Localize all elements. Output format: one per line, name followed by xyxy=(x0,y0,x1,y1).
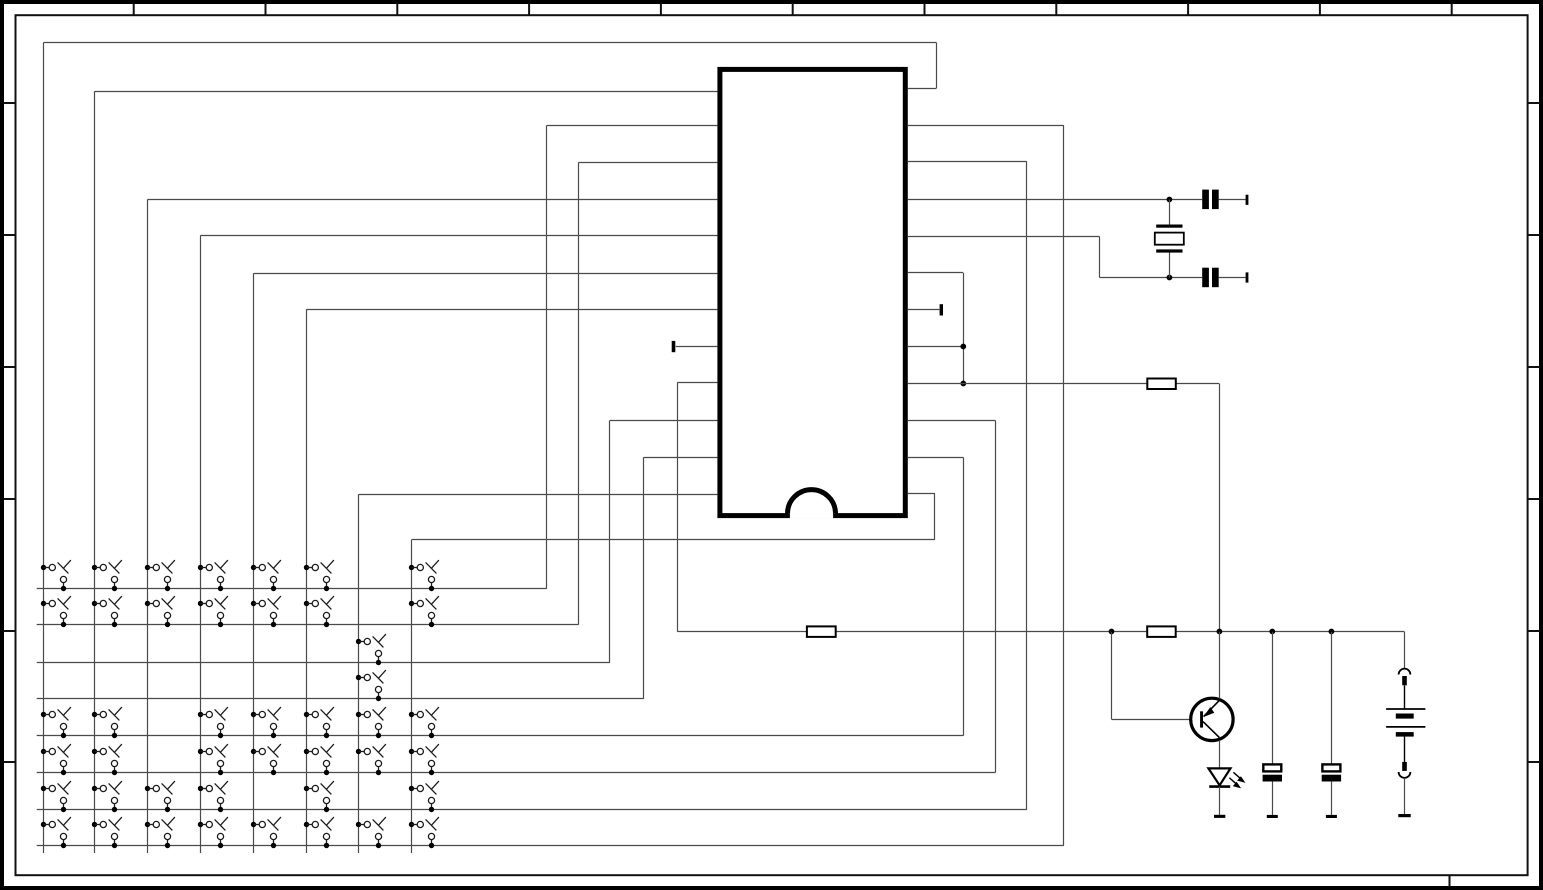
wire row net ROW3 horizontal xyxy=(37,662,610,664)
wire ROW8 riser xyxy=(1063,126,1065,846)
battery BT1 negative clip hook xyxy=(1399,772,1411,778)
pushbutton switch S1 (column 1, row 1) xyxy=(41,560,71,591)
pushbutton switch S18 (column 2, row 5) xyxy=(92,707,122,738)
frame tick left 5 xyxy=(3,630,15,632)
wire U1 right pin8 stub xyxy=(908,346,963,348)
junction VCC rail / C4 xyxy=(1329,629,1335,635)
ground terminal bar under BT1 xyxy=(1398,814,1410,817)
frame tick left 6 xyxy=(3,761,15,763)
pushbutton switch S28 (column 6, row 6) xyxy=(304,744,334,775)
junction VCC rail / Q1 base branch xyxy=(1109,629,1115,635)
wire ROW3 to U1 left pin10 xyxy=(610,420,718,422)
ground terminal bar under C4 xyxy=(1326,815,1337,818)
resistor R1 on VCC rail xyxy=(807,626,836,637)
capacitor C2 plates xyxy=(1202,268,1209,288)
wire U1 right pin7 stub xyxy=(908,309,940,311)
wire column4 net COL4 vertical xyxy=(200,235,202,853)
pushbutton switch S24 (column 1, row 6) xyxy=(41,744,71,775)
wire COL4 to U1 left pin5 xyxy=(200,235,717,237)
wire ROW4 riser xyxy=(643,458,645,699)
pushbutton switch S20 (column 5, row 5) xyxy=(251,707,281,738)
wire U1 right pin10 stub xyxy=(908,420,996,422)
wire pin6 to pin9 net tie xyxy=(963,273,965,384)
wire U1 right pin2 stub xyxy=(908,125,1064,127)
pushbutton switch S37 (column 1, row 8) xyxy=(41,817,71,848)
transistor Q1 collector xyxy=(1203,722,1219,738)
IC U1 microcontroller body xyxy=(720,69,905,515)
wire COL5 to U1 left pin6 xyxy=(254,273,718,275)
wire ROW7 riser xyxy=(1026,162,1028,810)
wire crystal Y1 top lead xyxy=(1169,200,1171,225)
frame tick right 6 xyxy=(1528,761,1540,763)
wire VCC to Q1 emitter xyxy=(1219,632,1221,699)
frame tick left 2 xyxy=(3,234,15,236)
pushbutton switch S43 (column 7, row 8) xyxy=(356,817,386,848)
junction VCC rail / C3 xyxy=(1269,629,1275,635)
frame tick top 2 xyxy=(265,3,267,15)
wire column3 net COL3 vertical xyxy=(147,200,149,854)
pushbutton switch S7 (column 8, row 1) xyxy=(409,560,439,591)
junction XTAL2/crystal xyxy=(1167,275,1173,281)
wire row net ROW6 horizontal xyxy=(37,772,996,774)
wire ROW2 to U1 left pin3 xyxy=(579,162,718,164)
pushbutton switch S30 (column 8, row 6) xyxy=(409,744,439,775)
wire U1 right pin12 stub xyxy=(908,493,935,495)
wire COL2 to U1 left pin1 xyxy=(95,91,718,93)
battery BT1 negative clip pin xyxy=(1402,762,1407,771)
capacitor C3 positive plate xyxy=(1263,764,1281,771)
frame tick top 5 xyxy=(660,3,662,15)
frame tick top 7 xyxy=(924,3,926,15)
wire COL8 routed under U1 xyxy=(411,539,935,541)
wire R2 to drop xyxy=(1176,383,1220,385)
terminal bar after C1 xyxy=(1246,195,1249,205)
frame tick right 2 xyxy=(1528,234,1540,236)
wire ROW2 riser xyxy=(578,162,580,624)
wire LED D1 cathode to ground terminal xyxy=(1219,787,1221,815)
wire capacitor C3 to ground terminal xyxy=(1272,782,1274,815)
wire column1 net COL1 vertical xyxy=(43,43,45,853)
LED D1 emission arrow 1 xyxy=(1233,772,1242,780)
wire COL8 drop from U1 right pin12 xyxy=(934,494,936,540)
pushbutton switch S21 (column 6, row 5) xyxy=(304,707,334,738)
no-connect bar terminal on U1 right pin7 xyxy=(940,304,943,315)
capacitor C4 negative plate xyxy=(1322,775,1341,782)
wire ROW3 riser xyxy=(609,420,611,662)
pushbutton switch S34 (column 4, row 7) xyxy=(198,781,228,812)
pushbutton switch S23 (column 8, row 5) xyxy=(409,707,439,738)
crystal Y1 top electrode plate xyxy=(1156,225,1182,228)
battery BT1 positive clip pin xyxy=(1402,676,1407,685)
pushbutton switch S40 (column 4, row 8) xyxy=(198,817,228,848)
wire column6 net COL6 vertical xyxy=(306,309,308,853)
pushbutton switch S29 (column 7, row 6) xyxy=(356,744,386,775)
frame tick top 3 xyxy=(396,3,398,15)
frame tick right 1 xyxy=(1528,102,1540,104)
wire U1 left pin8 stub xyxy=(676,346,718,348)
pushbutton switch S32 (column 2, row 7) xyxy=(92,781,122,812)
wire XTAL2 drop xyxy=(1099,237,1101,278)
frame tick top 10 xyxy=(1319,3,1321,15)
resistor R3 on VCC rail xyxy=(1147,626,1176,637)
frame tick top 6 xyxy=(792,3,794,15)
pushbutton switch S26 (column 4, row 6) xyxy=(198,744,228,775)
pushbutton switch S19 (column 4, row 5) xyxy=(198,707,228,738)
wire row net ROW4 horizontal xyxy=(37,698,644,700)
pushbutton switch S33 (column 3, row 7) xyxy=(145,781,175,812)
wire BT1 negative clip to ground terminal xyxy=(1404,778,1406,814)
wire ROW4 to U1 left pin11 xyxy=(643,457,717,459)
pushbutton switch S13 (column 6, row 2) xyxy=(304,596,334,627)
pushbutton switch S11 (column 4, row 2) xyxy=(198,596,228,627)
wire U1 right pin11 stub xyxy=(908,457,963,459)
transistor Q1 PNP circle xyxy=(1191,698,1233,740)
pushbutton switch S38 (column 2, row 8) xyxy=(92,817,122,848)
IC U1 notch gap xyxy=(790,513,833,518)
wire column5 net COL5 vertical xyxy=(253,273,255,853)
junction pin8 tie xyxy=(960,344,966,350)
pushbutton switch S42 (column 6, row 8) xyxy=(304,817,334,848)
wire row net ROW7 horizontal xyxy=(37,809,1027,811)
wire U1 right pin6 stub xyxy=(908,272,963,274)
frame tick left 1 xyxy=(3,102,15,104)
wire row net ROW5 horizontal xyxy=(37,735,964,737)
pushbutton switch S35 (column 6, row 7) xyxy=(304,781,334,812)
wire ROW1 to U1 left pin2 xyxy=(547,125,718,127)
battery BT1 cell1 long plate xyxy=(1386,708,1425,710)
no-connect bar terminal on U1 left pin8 xyxy=(672,341,676,352)
pushbutton switch S44 (column 8, row 8) xyxy=(409,817,439,848)
wire capacitor C4 to ground terminal xyxy=(1331,782,1333,815)
capacitor C1 plates xyxy=(1202,190,1209,210)
terminal bar after C2 xyxy=(1246,272,1249,282)
wire COL1 top horizontal xyxy=(43,42,936,44)
wire crystal Y1 bottom lead xyxy=(1169,252,1171,277)
wire XTAL2 from U1 right pin5 xyxy=(908,236,1100,238)
frame tick top 9 xyxy=(1187,3,1189,15)
wire left pin9 drop to VCC rail xyxy=(677,382,679,631)
wire COL6 to U1 left pin7 xyxy=(306,309,717,311)
frame tick top 4 xyxy=(528,3,530,15)
pushbutton switch S3 (column 3, row 1) xyxy=(145,560,175,591)
wire COL7 to U1 left pin12 xyxy=(359,494,718,496)
pushbutton switch S15 (column 7, row 3) xyxy=(356,634,386,665)
pushbutton switch S41 (column 5, row 8) xyxy=(251,817,281,848)
battery BT1 cell1 short plate xyxy=(1396,714,1414,719)
pushbutton switch S27 (column 5, row 6) xyxy=(251,744,281,775)
pushbutton switch S10 (column 3, row 2) xyxy=(145,596,175,627)
wire drop to VCC rail xyxy=(1219,384,1221,632)
wire XTAL2 to capacitor C2 xyxy=(1100,277,1203,279)
pushbutton switch S2 (column 2, row 1) xyxy=(92,560,122,591)
wire ROW5 riser xyxy=(963,457,965,735)
LED D1 emission arrow 2 xyxy=(1229,778,1238,786)
capacitor C4 positive plate xyxy=(1322,764,1340,771)
frame tick right 3 xyxy=(1528,366,1540,368)
crystal Y1 body xyxy=(1155,233,1184,245)
pushbutton switch S14 (column 8, row 2) xyxy=(409,596,439,627)
transistor Q1 emitter (arrow towards base = PNP) xyxy=(1204,700,1220,717)
wire column2 net COL2 vertical xyxy=(94,91,96,853)
wire U1 right pin3 stub xyxy=(908,161,1027,163)
wire U1 right pin1 stub xyxy=(908,88,937,90)
frame tick left 3 xyxy=(3,366,15,368)
frame tick right 5 xyxy=(1528,630,1540,632)
wire VCC rail horizontal xyxy=(678,631,1405,633)
wire row net ROW2 horizontal xyxy=(37,624,579,626)
pushbutton switch S31 (column 1, row 7) xyxy=(41,781,71,812)
wire VCC rail to battery BT1 xyxy=(1404,632,1406,669)
wire row net ROW1 horizontal xyxy=(37,588,547,590)
pushbutton switch S16 (column 7, row 4) xyxy=(356,670,386,701)
IC U1 pin-1 notch arc xyxy=(788,490,836,514)
capacitor C3 negative plate xyxy=(1263,775,1282,782)
pushbutton switch S6 (column 6, row 1) xyxy=(304,560,334,591)
wire VCC to capacitor C4 xyxy=(1331,632,1333,765)
pushbutton switch S36 (column 8, row 7) xyxy=(409,781,439,812)
wire COL1 drop to U1 right pin1 xyxy=(936,43,938,89)
wire VCC to capacitor C3 xyxy=(1272,632,1274,765)
pushbutton switch S12 (column 5, row 2) xyxy=(251,596,281,627)
junction XTAL1/crystal xyxy=(1167,197,1173,203)
wire COL3 to U1 left pin4 xyxy=(148,199,718,201)
wire U1 left pin9 stub xyxy=(678,382,718,384)
battery BT1 cell2 long plate xyxy=(1386,726,1425,728)
junction pin9 tie xyxy=(960,381,966,387)
wire Q1 base lead xyxy=(1112,719,1201,721)
frame tick left 4 xyxy=(3,498,15,500)
battery BT1 cell2 short plate xyxy=(1396,732,1414,737)
frame tick top 1 xyxy=(133,3,135,15)
wire C1 to terminal xyxy=(1219,199,1246,201)
pushbutton switch S9 (column 2, row 2) xyxy=(92,596,122,627)
frame tick top 8 xyxy=(1055,3,1057,15)
frame tick bottom 1 xyxy=(1449,875,1451,887)
pushbutton switch S39 (column 3, row 8) xyxy=(145,817,175,848)
pushbutton switch S4 (column 4, row 1) xyxy=(198,560,228,591)
LED D1 cathode bar xyxy=(1209,785,1230,788)
pushbutton switch S8 (column 1, row 2) xyxy=(41,596,71,627)
ground terminal bar under C3 xyxy=(1267,815,1278,818)
wire column7 net COL7 vertical xyxy=(358,494,360,853)
wire Q1 collector to LED D1 xyxy=(1219,740,1221,768)
wire BT1 clip to cells xyxy=(1404,685,1406,709)
frame tick top 11 xyxy=(1451,3,1453,15)
LED D1 triangle (anode) xyxy=(1208,768,1230,785)
wire U1 right pin9 to resistor R2 xyxy=(908,383,1147,385)
wire BT1 cells to negative clip xyxy=(1404,737,1406,762)
pushbutton switch S22 (column 7, row 5) xyxy=(356,707,386,738)
wire ROW1 riser xyxy=(546,125,548,588)
transistor Q1 base bar xyxy=(1200,711,1203,727)
wire ROW6 riser xyxy=(995,421,997,773)
pushbutton switch S5 (column 5, row 1) xyxy=(251,560,281,591)
wire Q1 base branch vertical xyxy=(1111,632,1113,720)
crystal Y1 bottom electrode plate xyxy=(1156,249,1182,252)
ground terminal bar under LED D1 xyxy=(1214,815,1225,818)
frame tick right 4 xyxy=(1528,498,1540,500)
wire row net ROW8 horizontal xyxy=(37,845,1064,847)
junction VCC rail / Q1 emitter branch xyxy=(1217,629,1223,635)
pushbutton switch S25 (column 2, row 6) xyxy=(92,744,122,775)
pushbutton switch S17 (column 1, row 5) xyxy=(41,707,71,738)
wire XTAL1 net to capacitor C1 xyxy=(908,199,1202,201)
wire column8 net COL8 vertical xyxy=(411,540,413,853)
wire C2 to terminal xyxy=(1219,277,1246,279)
resistor R2 xyxy=(1147,379,1176,390)
battery BT1 positive clip hook xyxy=(1399,669,1411,675)
